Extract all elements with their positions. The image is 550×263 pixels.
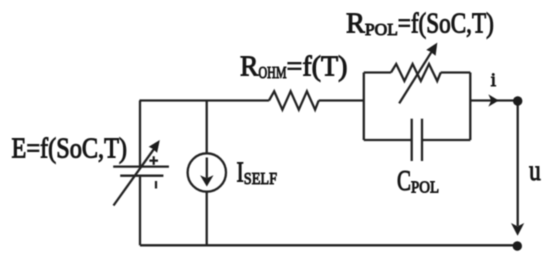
current source I_SELF arrow head bbox=[200, 175, 213, 186]
voltage arrow head (u) bbox=[511, 223, 524, 236]
wire from box to output node bbox=[470, 99, 514, 101]
current source I_SELF circle bbox=[188, 153, 226, 191]
wire current source branch upper bbox=[206, 101, 208, 154]
resistor R_OHM zigzag bbox=[269, 91, 319, 109]
battery polarity plus bbox=[149, 156, 158, 165]
battery E top plate bbox=[113, 165, 169, 167]
variable resistor R_POL arrow shaft bbox=[399, 50, 432, 103]
wire current source branch lower bbox=[206, 192, 208, 246]
capacitor C_POL left plate bbox=[411, 119, 413, 161]
node top-right bbox=[513, 96, 522, 105]
svg-text:E=f(SoC,T): E=f(SoC,T) bbox=[12, 134, 128, 165]
wire bottom horizontal bbox=[140, 244, 517, 246]
capacitor C_POL right plate bbox=[421, 119, 423, 161]
wire RC box top branch left bbox=[364, 71, 391, 73]
svg-text:i: i bbox=[491, 70, 496, 91]
wire RC box top branch right bbox=[441, 71, 471, 73]
wire RC box bottom branch left bbox=[364, 139, 412, 141]
wire battery branch lower bbox=[139, 176, 141, 246]
battery polarity minus tick bbox=[155, 181, 157, 189]
wire battery branch upper bbox=[139, 101, 141, 167]
battery E bottom plate bbox=[120, 175, 163, 177]
wire RC box right vertical bbox=[469, 73, 471, 141]
wire RC box left vertical bbox=[363, 73, 365, 141]
svg-text:ROHM=f(T): ROHM=f(T) bbox=[240, 52, 348, 83]
wire RC box bottom branch right bbox=[422, 139, 470, 141]
wire top horizontal left segment bbox=[140, 99, 270, 101]
wire from R_OHM to RC box bbox=[319, 99, 364, 101]
current source I_SELF arrow shaft bbox=[206, 158, 208, 179]
wire right vertical (u branch) bbox=[517, 101, 519, 226]
svg-text:ISELF: ISELF bbox=[237, 158, 278, 189]
resistor R_POL zigzag bbox=[391, 64, 441, 81]
battery E variable arrow head bbox=[149, 140, 160, 153]
svg-text:CPOL: CPOL bbox=[397, 166, 439, 197]
battery E variable arrow shaft bbox=[114, 148, 155, 205]
svg-text:u: u bbox=[529, 154, 541, 187]
variable resistor R_POL arrow head bbox=[426, 43, 437, 56]
node bottom-right bbox=[513, 241, 522, 250]
output current arrow head (i) bbox=[488, 94, 498, 106]
svg-text:RPOL=f(SoC,T): RPOL=f(SoC,T) bbox=[346, 9, 494, 40]
